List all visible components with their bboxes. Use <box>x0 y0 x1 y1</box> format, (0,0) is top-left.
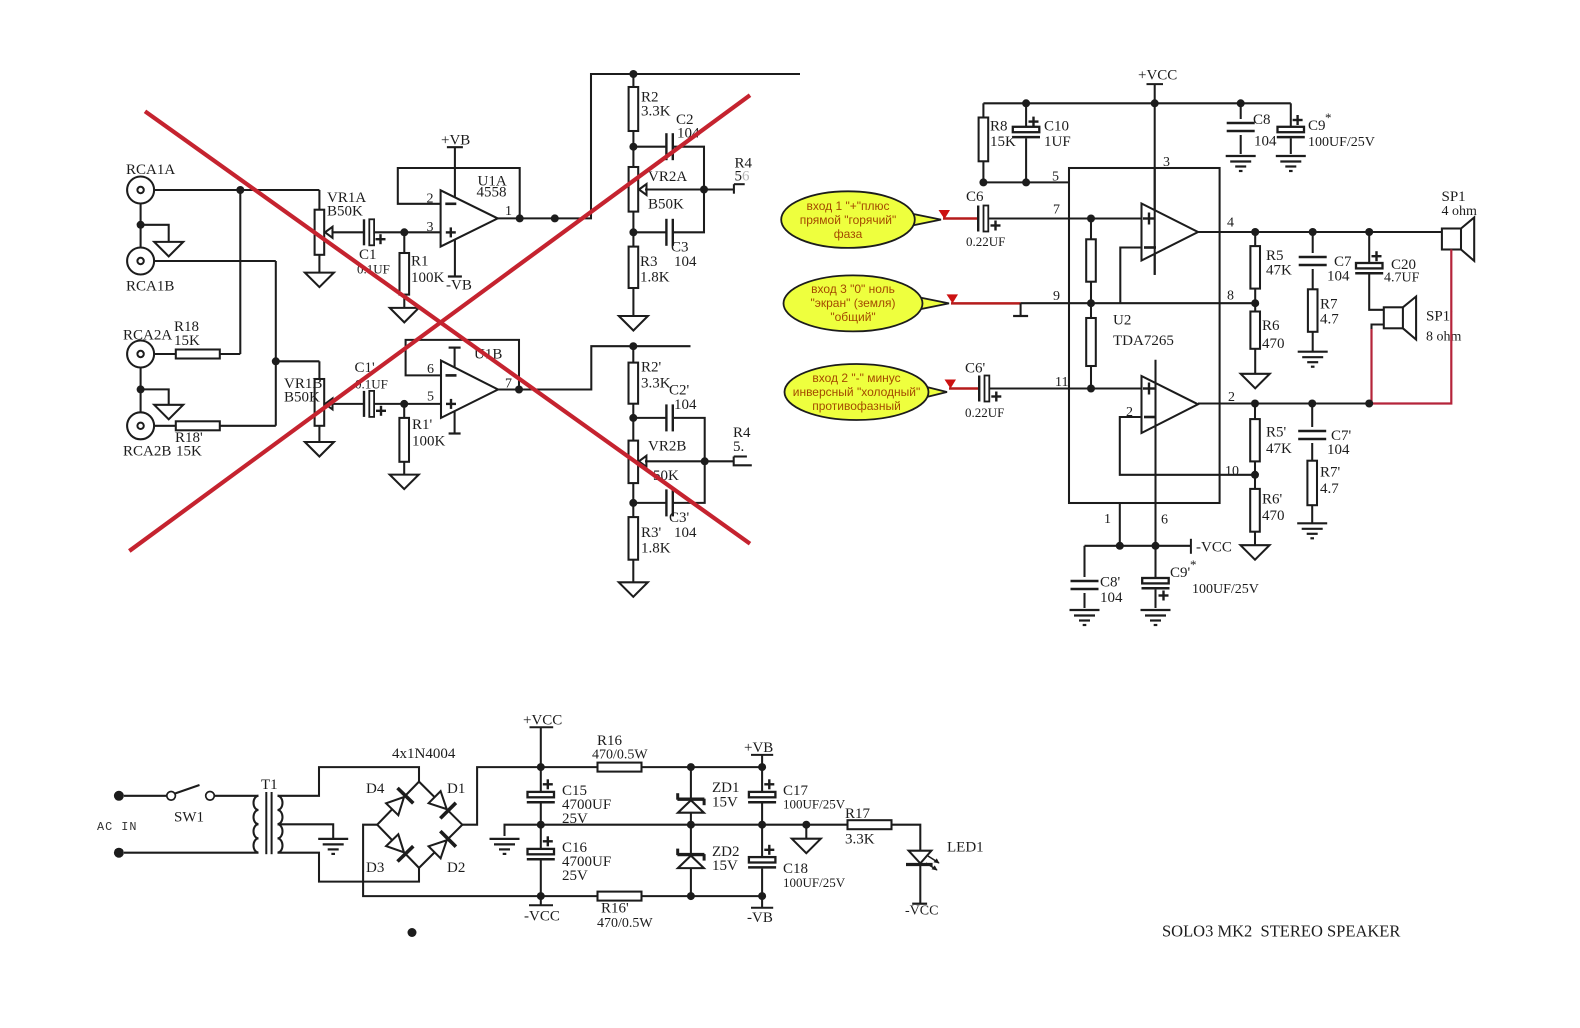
svg-text:8 ohm: 8 ohm <box>1426 330 1462 345</box>
svg-text:C8': C8' <box>1100 575 1121 591</box>
svg-text:-VCC: -VCC <box>905 904 938 919</box>
svg-text:R3': R3' <box>641 525 662 541</box>
svg-text:RCA1A: RCA1A <box>126 162 175 178</box>
svg-text:3.3K: 3.3K <box>641 104 671 120</box>
svg-text:47K: 47K <box>1266 441 1292 457</box>
svg-text:100UF/25V: 100UF/25V <box>783 797 846 812</box>
svg-text:3.3K: 3.3K <box>845 832 875 848</box>
svg-text:6: 6 <box>1161 513 1168 528</box>
svg-text:TDA7265: TDA7265 <box>1113 333 1174 349</box>
svg-text:инверсный "холодный": инверсный "холодный" <box>793 385 921 399</box>
svg-text:C3': C3' <box>669 510 690 526</box>
svg-text:D3: D3 <box>366 860 384 876</box>
svg-text:104: 104 <box>674 397 697 413</box>
svg-text:100K: 100K <box>412 434 446 450</box>
svg-text:прямой "горячий": прямой "горячий" <box>800 213 897 227</box>
svg-text:R6: R6 <box>1262 318 1280 334</box>
svg-text:3.3K: 3.3K <box>641 376 671 392</box>
svg-text:RCA2A: RCA2A <box>123 328 172 344</box>
svg-text:VR2A: VR2A <box>648 169 687 185</box>
svg-text:C9: C9 <box>1308 118 1326 134</box>
svg-text:вход 1 "+"плюс: вход 1 "+"плюс <box>806 199 889 213</box>
svg-text:R17: R17 <box>845 806 871 822</box>
svg-text:4x1N4004: 4x1N4004 <box>392 746 456 762</box>
svg-text:100UF/25V: 100UF/25V <box>1192 582 1259 597</box>
svg-text:100K: 100K <box>411 270 445 286</box>
svg-text:R1': R1' <box>412 417 433 433</box>
svg-text:SP1': SP1' <box>1426 309 1453 325</box>
svg-text:RCA2B: RCA2B <box>123 444 171 460</box>
svg-text:R5': R5' <box>1266 425 1287 441</box>
svg-text:7: 7 <box>1053 203 1060 218</box>
svg-text:3: 3 <box>427 220 434 235</box>
svg-text:470/0.5W: 470/0.5W <box>597 916 653 931</box>
svg-text:15K: 15K <box>174 333 200 349</box>
svg-text:6: 6 <box>742 169 750 185</box>
svg-text:470/0.5W: 470/0.5W <box>592 748 648 763</box>
svg-text:-VB: -VB <box>747 910 773 926</box>
svg-text:4.7UF: 4.7UF <box>1384 271 1420 286</box>
svg-text:104: 104 <box>1327 442 1350 458</box>
svg-text:-VB: -VB <box>446 278 472 294</box>
svg-text:фаза: фаза <box>834 227 863 241</box>
svg-text:U2: U2 <box>1113 313 1131 329</box>
svg-text:15V: 15V <box>712 795 738 811</box>
svg-text:R6': R6' <box>1262 492 1283 508</box>
svg-text:SW1: SW1 <box>174 810 204 826</box>
svg-text:1UF: 1UF <box>1044 134 1071 150</box>
svg-text:0.22UF: 0.22UF <box>966 234 1005 249</box>
svg-text:+VB: +VB <box>744 740 773 756</box>
svg-text:1: 1 <box>1104 512 1111 527</box>
svg-text:3: 3 <box>1163 155 1170 170</box>
svg-text:B50K: B50K <box>284 390 320 406</box>
svg-text:8: 8 <box>1227 289 1234 304</box>
svg-text:5.: 5. <box>733 439 744 455</box>
svg-text:104: 104 <box>674 525 697 541</box>
svg-text:1: 1 <box>505 204 512 219</box>
svg-text:"экран" (земля): "экран" (земля) <box>811 296 896 310</box>
svg-text:1.8K: 1.8K <box>641 541 671 557</box>
svg-text:2: 2 <box>1126 405 1133 420</box>
svg-text:R8: R8 <box>990 119 1008 135</box>
svg-text:+VCC: +VCC <box>523 713 562 729</box>
svg-text:104: 104 <box>674 254 697 270</box>
svg-text:1.8K: 1.8K <box>640 270 670 286</box>
svg-text:-VCC: -VCC <box>1196 540 1232 556</box>
svg-text:D4: D4 <box>366 781 385 797</box>
svg-text:15V: 15V <box>712 858 738 874</box>
svg-text:4 ohm: 4 ohm <box>1442 204 1478 219</box>
svg-text:противофазный: противофазный <box>812 399 901 413</box>
svg-text:R2': R2' <box>641 360 662 376</box>
svg-text:-VCC: -VCC <box>524 909 560 925</box>
svg-text:470: 470 <box>1262 508 1285 524</box>
svg-text:100UF/25V: 100UF/25V <box>783 875 846 890</box>
svg-text:C10: C10 <box>1044 119 1069 135</box>
svg-text:2: 2 <box>1228 390 1235 405</box>
svg-text:R1: R1 <box>411 254 429 270</box>
svg-text:"общий": "общий" <box>830 310 875 324</box>
svg-text:C9': C9' <box>1170 565 1191 581</box>
svg-text:47K: 47K <box>1266 263 1292 279</box>
svg-text:4: 4 <box>1227 216 1234 231</box>
svg-text:470: 470 <box>1262 336 1285 352</box>
svg-text:100UF/25V: 100UF/25V <box>1308 135 1375 150</box>
svg-text:5: 5 <box>427 390 434 405</box>
svg-text:5: 5 <box>735 169 743 185</box>
svg-text:T1: T1 <box>261 777 278 793</box>
svg-text:10: 10 <box>1225 464 1239 479</box>
svg-text:вход 3 "0" ноль: вход 3 "0" ноль <box>811 282 895 296</box>
svg-text:11: 11 <box>1055 375 1068 390</box>
svg-text:104: 104 <box>1100 590 1123 606</box>
svg-text:вход 2 "-" минус: вход 2 "-" минус <box>812 371 900 385</box>
svg-text:RCA1B: RCA1B <box>126 279 174 295</box>
svg-text:104: 104 <box>1327 269 1350 285</box>
svg-text:R3: R3 <box>640 254 658 270</box>
svg-text:4.7: 4.7 <box>1320 481 1339 497</box>
svg-text:C6': C6' <box>965 361 986 377</box>
svg-text:9: 9 <box>1053 289 1060 304</box>
svg-text:B50K: B50K <box>648 197 684 213</box>
svg-text:SP1: SP1 <box>1442 189 1466 205</box>
svg-text:R16': R16' <box>601 901 629 917</box>
svg-text:AC IN: AC IN <box>97 820 137 834</box>
svg-text:C8: C8 <box>1253 112 1271 128</box>
svg-text:25V: 25V <box>562 868 588 884</box>
svg-text:4558: 4558 <box>477 185 507 201</box>
svg-text:4.7: 4.7 <box>1320 312 1339 328</box>
svg-text:LED1: LED1 <box>947 840 984 856</box>
svg-text:*: * <box>1325 110 1332 125</box>
svg-text:R7: R7 <box>1320 297 1338 313</box>
svg-text:+VCC: +VCC <box>1138 68 1177 84</box>
svg-text:B50K: B50K <box>327 204 363 220</box>
svg-text:*: * <box>1190 557 1197 572</box>
svg-text:VR2B: VR2B <box>648 439 686 455</box>
svg-text:104: 104 <box>1254 134 1277 150</box>
svg-text:D2: D2 <box>447 860 465 876</box>
svg-text:15K: 15K <box>176 444 202 460</box>
svg-text:C6: C6 <box>966 189 984 205</box>
svg-text:5: 5 <box>1052 170 1059 185</box>
svg-text:D1: D1 <box>447 781 465 797</box>
svg-text:R7': R7' <box>1320 465 1341 481</box>
svg-text:0.22UF: 0.22UF <box>965 405 1004 420</box>
svg-text:25V: 25V <box>562 811 588 827</box>
svg-text:SOLO3 MK2 STEREO SPEAKER: SOLO3 MK2 STEREO SPEAKER <box>1162 922 1400 941</box>
